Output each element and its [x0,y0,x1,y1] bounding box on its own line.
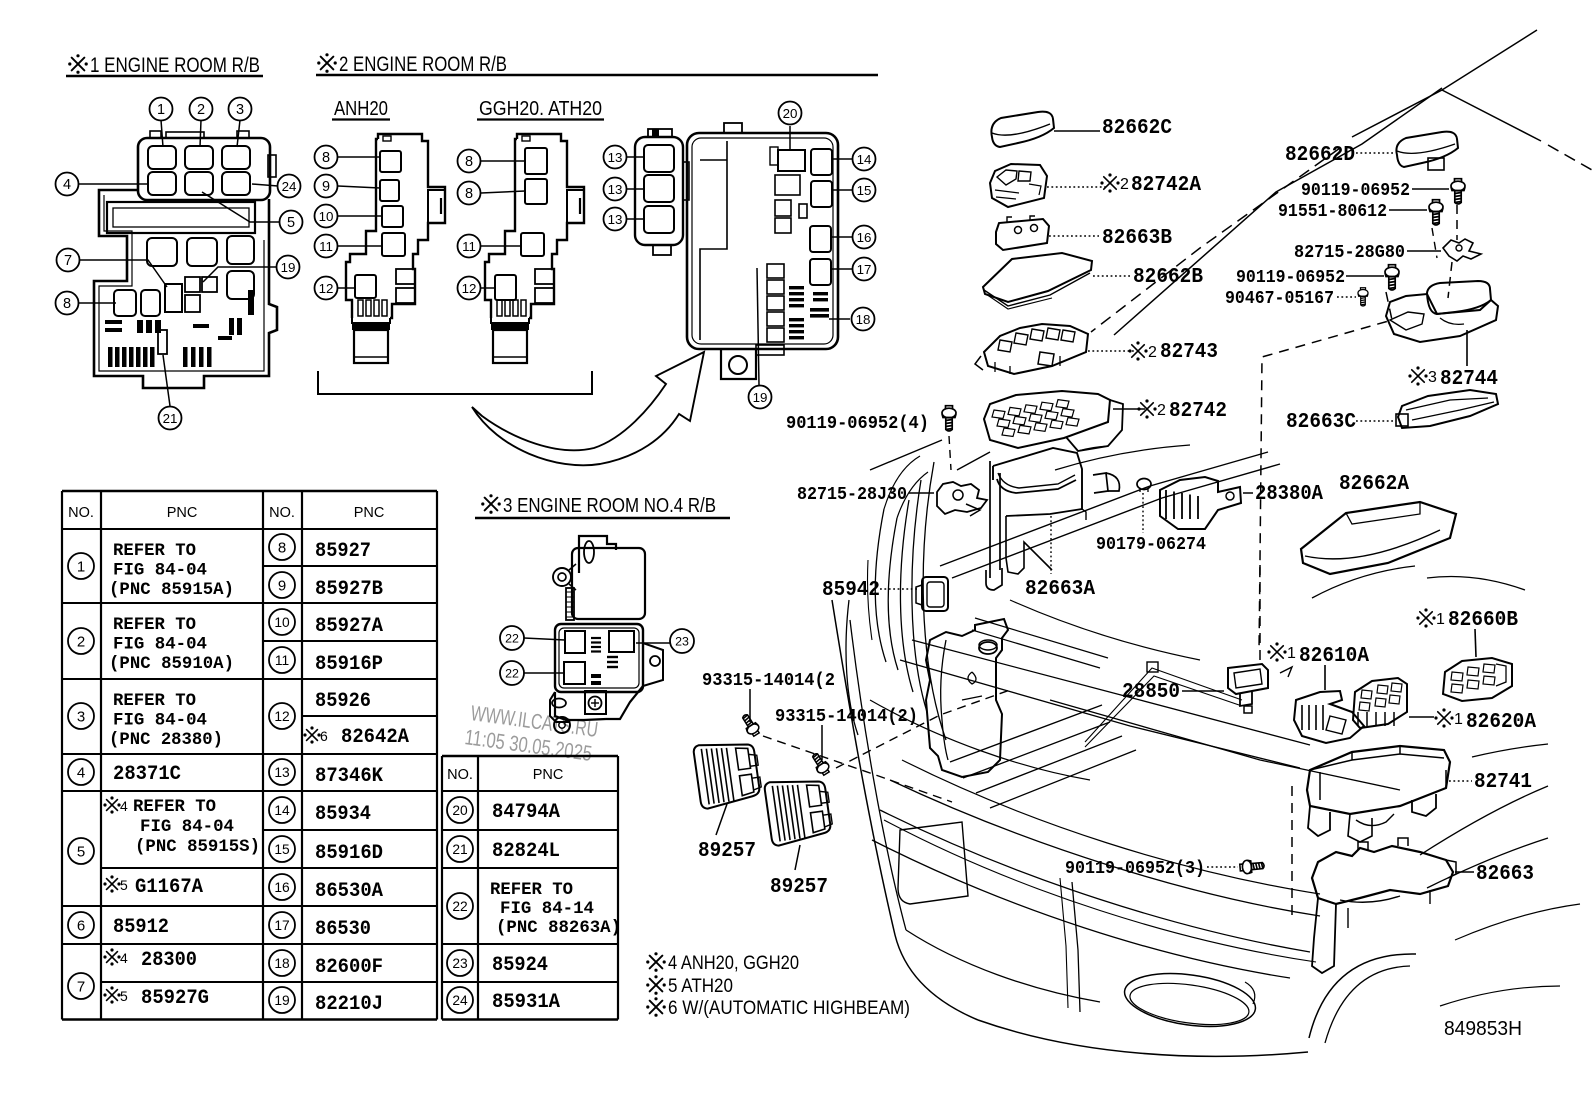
svg-text:REFER TO: REFER TO [490,880,573,900]
svg-text:5: 5 [287,215,295,231]
svg-text:5: 5 [120,988,128,1004]
svg-text:18: 18 [274,956,290,971]
svg-text:22: 22 [505,631,519,645]
svg-text:FIG 84-04: FIG 84-04 [140,817,234,837]
svg-text:3: 3 [77,708,85,725]
svg-text:90119-06952(4): 90119-06952(4) [786,414,929,434]
svg-text:84794A: 84794A [492,801,561,824]
svg-text:82662D: 82662D [1285,143,1355,167]
svg-text:11: 11 [319,239,333,254]
svg-text:85916D: 85916D [315,842,383,865]
svg-text:23: 23 [675,634,689,648]
svg-text:93315-14014(2: 93315-14014(2 [702,671,835,691]
svg-text:82744: 82744 [1440,367,1498,391]
svg-text:9: 9 [322,179,330,195]
svg-text:90119-06952(3): 90119-06952(3) [1065,859,1205,879]
svg-text:86530A: 86530A [315,880,384,903]
svg-text:28371C: 28371C [113,763,181,786]
svg-text:82210J: 82210J [315,993,383,1016]
svg-text:82743: 82743 [1160,340,1218,364]
svg-text:4: 4 [77,764,85,781]
svg-text:7: 7 [64,253,72,269]
svg-text:849853H: 849853H [1444,1018,1522,1040]
svg-text:82742A: 82742A [1131,173,1201,197]
svg-text:2: 2 [1148,344,1157,361]
svg-text:82610A: 82610A [1299,644,1369,668]
svg-text:3 ENGINE ROOM NO.4 R/B: 3 ENGINE ROOM NO.4 R/B [503,495,716,517]
svg-text:8: 8 [63,296,71,312]
svg-text:86530: 86530 [315,918,371,941]
svg-text:82663A: 82663A [1025,577,1095,601]
svg-text:NO.: NO. [447,767,473,783]
svg-text:13: 13 [608,212,623,227]
svg-text:82663: 82663 [1476,862,1534,886]
svg-text:24: 24 [282,179,297,194]
svg-text:85916P: 85916P [315,653,383,676]
svg-text:82715-28J30: 82715-28J30 [797,485,907,505]
svg-text:20: 20 [783,106,798,121]
svg-text:2: 2 [197,102,205,118]
svg-text:82620A: 82620A [1466,710,1536,734]
svg-text:17: 17 [274,918,289,933]
svg-text:4: 4 [120,798,128,814]
svg-text:85927A: 85927A [315,615,384,638]
svg-text:FIG 84-04: FIG 84-04 [113,635,207,655]
svg-text:10: 10 [319,209,334,224]
svg-text:12: 12 [462,281,477,296]
svg-text:82663C: 82663C [1286,410,1356,434]
svg-text:89257: 89257 [770,875,828,899]
svg-text:6: 6 [77,917,85,934]
svg-text:6: 6 [320,728,328,744]
svg-text:85927B: 85927B [315,578,383,601]
svg-text:85927G: 85927G [141,987,209,1010]
svg-text:PNC: PNC [167,505,198,521]
svg-text:FIG 84-04: FIG 84-04 [113,711,207,731]
svg-text:82715-28G80: 82715-28G80 [1294,243,1405,263]
svg-text:90119-06952: 90119-06952 [1236,268,1345,288]
svg-text:NO.: NO. [269,505,295,521]
svg-text:85924: 85924 [492,954,548,977]
svg-text:G1167A: G1167A [135,876,204,899]
svg-text:28300: 28300 [141,949,197,972]
svg-text:13: 13 [608,182,623,197]
svg-text:4: 4 [63,177,71,193]
svg-text:23: 23 [452,956,468,971]
svg-text:82663B: 82663B [1102,226,1172,250]
svg-text:85912: 85912 [113,916,169,939]
svg-text:8: 8 [465,154,473,170]
svg-text:82662C: 82662C [1102,116,1172,140]
svg-text:3: 3 [1428,369,1437,386]
svg-text:1: 1 [77,558,85,575]
svg-text:(PNC 85915S): (PNC 85915S) [135,837,260,857]
svg-text:8: 8 [465,186,473,202]
svg-text:14: 14 [857,152,872,167]
svg-text:2: 2 [1120,176,1129,193]
svg-text:2: 2 [77,633,85,650]
svg-text:11: 11 [275,653,289,668]
svg-text:8: 8 [322,150,330,166]
svg-text:82642A: 82642A [341,726,410,749]
svg-text:85926: 85926 [315,690,371,713]
svg-text:22: 22 [452,899,467,914]
svg-text:FIG 84-14: FIG 84-14 [500,899,594,919]
svg-text:90467-05167: 90467-05167 [1225,289,1334,309]
svg-text:2: 2 [1157,402,1166,419]
svg-text:90119-06952: 90119-06952 [1301,181,1410,201]
svg-text:(PNC 88263A): (PNC 88263A) [496,918,621,938]
svg-text:15: 15 [857,183,872,198]
svg-text:5 ATH20: 5 ATH20 [668,976,733,997]
svg-text:PNC: PNC [354,505,385,521]
svg-text:16: 16 [857,230,872,245]
svg-text:PNC: PNC [533,767,564,783]
svg-text:1: 1 [1436,611,1445,628]
svg-text:11: 11 [462,239,476,254]
svg-text:2 ENGINE ROOM R/B: 2 ENGINE ROOM R/B [339,53,507,76]
svg-text:93315-14014(2): 93315-14014(2) [775,707,918,727]
svg-text:82660B: 82660B [1448,608,1518,632]
svg-text:16: 16 [274,880,290,895]
svg-text:10: 10 [274,615,290,630]
svg-text:(PNC 85915A): (PNC 85915A) [109,580,234,600]
svg-text:24: 24 [452,993,468,1008]
svg-text:9: 9 [278,577,286,594]
svg-text:20: 20 [452,803,468,818]
svg-text:(PNC 85910A): (PNC 85910A) [109,654,234,674]
svg-text:82742: 82742 [1169,399,1227,423]
svg-text:82600F: 82600F [315,956,383,979]
svg-text:1: 1 [157,102,165,118]
svg-text:REFER TO: REFER TO [133,797,216,817]
svg-text:1 ENGINE ROOM R/B: 1 ENGINE ROOM R/B [90,54,260,77]
svg-text:19: 19 [274,993,290,1008]
svg-text:22: 22 [505,666,519,680]
svg-text:85927: 85927 [315,540,371,563]
svg-text:5: 5 [120,877,128,893]
svg-text:21: 21 [452,842,467,857]
svg-text:82741: 82741 [1474,770,1532,794]
svg-text:82824L: 82824L [492,840,560,863]
svg-text:14: 14 [274,803,290,818]
svg-text:85934: 85934 [315,803,371,826]
svg-text:GGH20. ATH20: GGH20. ATH20 [479,98,602,120]
svg-text:8: 8 [278,539,286,556]
svg-text:3: 3 [236,102,244,118]
svg-text:19: 19 [281,260,296,275]
svg-text:82662A: 82662A [1339,472,1409,496]
svg-text:87346K: 87346K [315,765,384,788]
svg-text:90179-06274: 90179-06274 [1096,535,1206,555]
svg-text:13: 13 [608,150,623,165]
svg-text:17: 17 [857,262,872,277]
svg-text:28380A: 28380A [1255,482,1323,506]
svg-text:1: 1 [1287,645,1296,662]
svg-text:12: 12 [274,709,289,724]
svg-text:(PNC 28380): (PNC 28380) [109,730,223,750]
svg-text:12: 12 [319,281,334,296]
svg-text:REFER TO: REFER TO [113,615,196,635]
svg-text:7: 7 [77,978,85,995]
svg-text:13: 13 [274,765,290,780]
svg-text:FIG 84-04: FIG 84-04 [113,561,207,581]
svg-text:NO.: NO. [68,505,94,521]
svg-text:85942: 85942 [822,578,880,602]
svg-text:4 ANH20, GGH20: 4 ANH20, GGH20 [668,953,799,974]
svg-text:19: 19 [753,390,768,405]
svg-text:ANH20: ANH20 [334,98,388,120]
svg-text:4: 4 [120,950,128,966]
svg-text:21: 21 [163,411,178,426]
svg-text:91551-80612: 91551-80612 [1278,202,1387,222]
svg-text:REFER TO: REFER TO [113,541,196,561]
svg-text:1: 1 [1454,711,1463,728]
svg-text:82662B: 82662B [1133,265,1203,289]
svg-text:6 W/(AUTOMATIC HIGHBEAM): 6 W/(AUTOMATIC HIGHBEAM) [668,998,910,1019]
svg-text:18: 18 [856,312,871,327]
svg-text:15: 15 [274,842,290,857]
svg-text:5: 5 [77,843,85,860]
svg-text:85931A: 85931A [492,991,561,1014]
svg-text:REFER TO: REFER TO [113,691,196,711]
svg-text:89257: 89257 [698,839,756,863]
